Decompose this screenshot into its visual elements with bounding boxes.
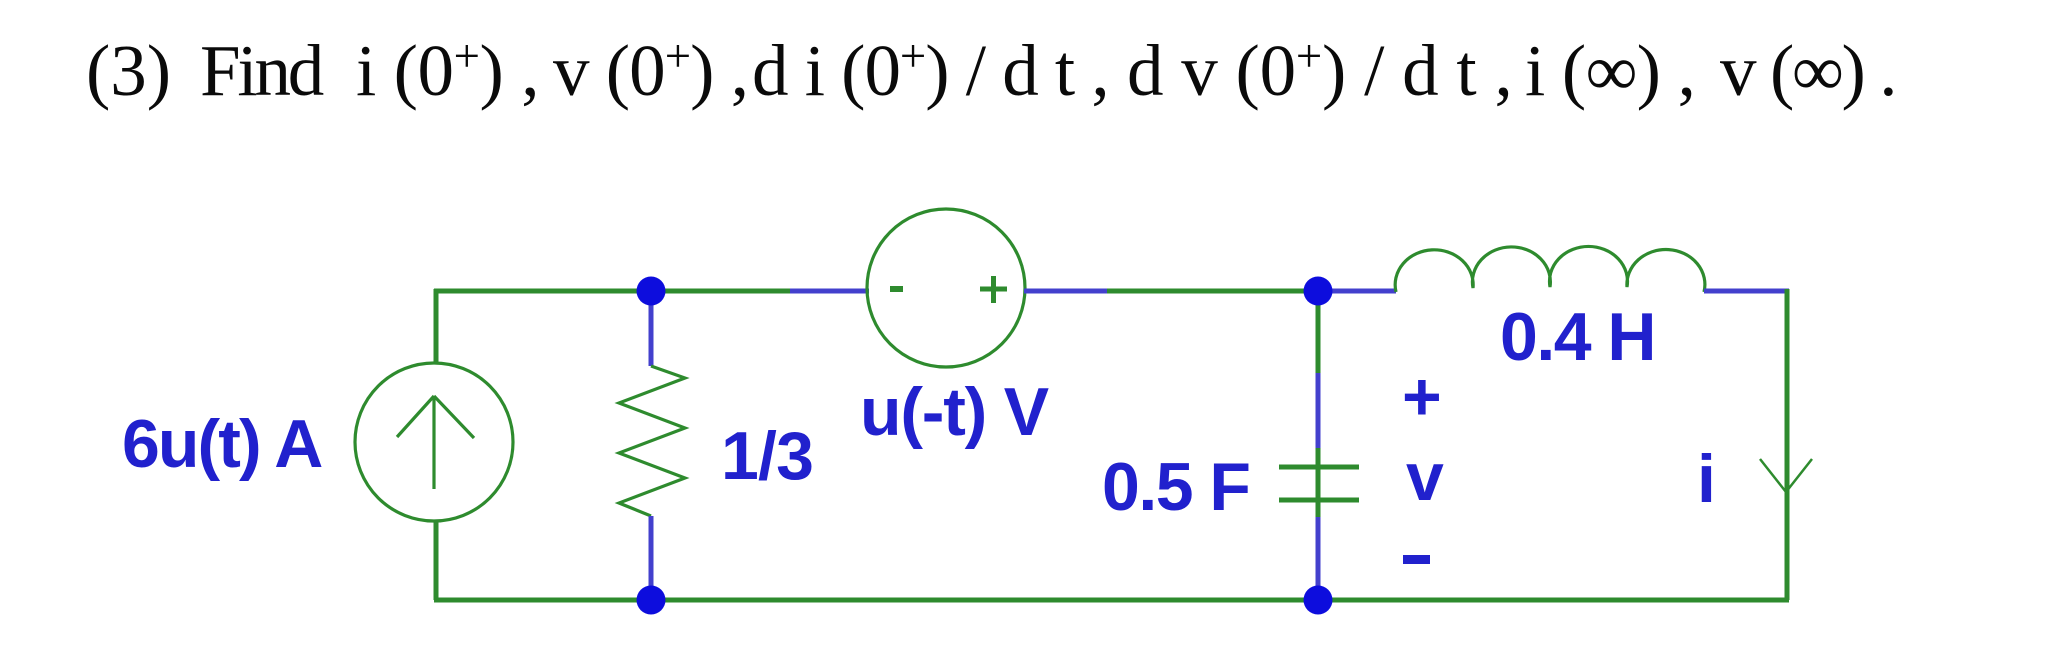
label v	[1406, 438, 1444, 516]
wire: capacitor branch blue lower	[1316, 517, 1321, 592]
wire: capacitor branch blue upper	[1316, 373, 1321, 452]
wire: left rail upper green segment	[434, 289, 439, 364]
label plus sign of v	[1402, 358, 1442, 436]
label 6u(t) A	[122, 405, 321, 483]
wire: resistor branch lower blue stub	[649, 516, 654, 600]
node dot top of capacitor	[1304, 277, 1333, 306]
capacitor C1 plates	[1279, 467, 1359, 500]
wire: blue segment from node to inductor	[1318, 289, 1396, 294]
label 0.5 F	[1102, 448, 1249, 526]
label u(-t) V	[860, 373, 1048, 451]
problem statement title	[0, 29, 2046, 129]
voltage source U1 circle	[867, 209, 1025, 367]
current source I1 circle	[355, 363, 513, 521]
resistor R1 zigzag	[619, 366, 685, 516]
wire: top rail left green segment	[434, 289, 790, 294]
node dot top of resistor	[637, 277, 666, 306]
inductor L1 0.4 H coil	[1395, 246, 1705, 292]
label 0.4 H	[1500, 298, 1655, 376]
wire: right rail vertical green	[1785, 289, 1790, 600]
wire: resistor branch upper blue stub	[649, 291, 654, 366]
wire: capacitor bottom green stub	[1316, 500, 1321, 519]
voltage source plus terminal mark	[980, 276, 1007, 303]
voltage source minus terminal mark	[890, 286, 903, 292]
current direction arrowhead i	[1760, 459, 1812, 492]
wire: left rail lower green segment	[434, 521, 439, 600]
label minus sign of v	[1403, 555, 1430, 564]
wire: blue segment right of voltage source	[1024, 289, 1107, 294]
node dot bottom of capacitor	[1304, 586, 1333, 615]
label 1/3	[721, 417, 813, 495]
label i	[1697, 440, 1716, 518]
wire: blue segment from inductor to top-right corner	[1704, 289, 1789, 294]
current source arrow	[397, 396, 474, 489]
wire: top rail blue segment into voltage source	[790, 289, 869, 294]
wire: capacitor branch green upper	[1316, 291, 1321, 373]
wire: capacitor inter-plate green stub	[1316, 467, 1321, 500]
node dot bottom of resistor	[637, 586, 666, 615]
wire: capacitor top green stub	[1316, 448, 1321, 467]
wire: top rail green segment to capacitor node	[1107, 289, 1320, 294]
wire: bottom rail green	[434, 598, 1789, 603]
